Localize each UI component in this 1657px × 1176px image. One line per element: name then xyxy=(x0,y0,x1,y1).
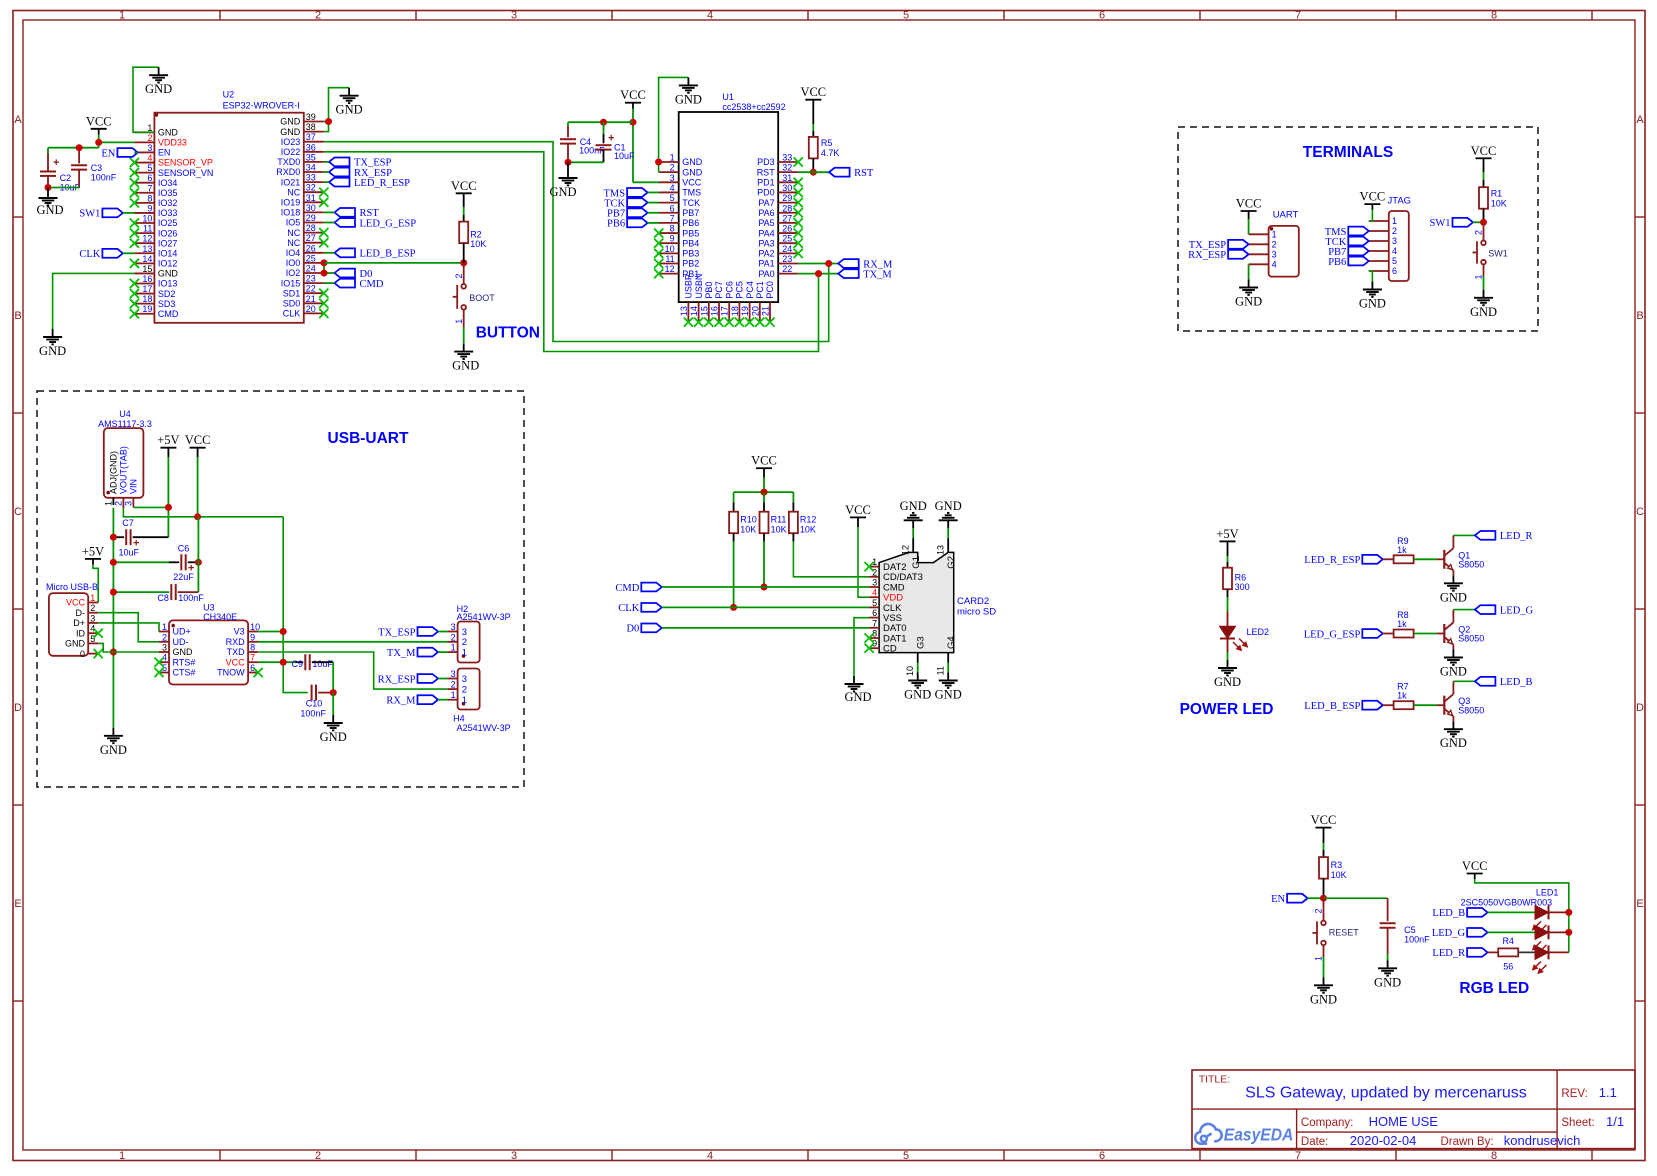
svg-text:5: 5 xyxy=(670,193,675,203)
svg-text:100nF: 100nF xyxy=(178,593,204,603)
section box TERMINALS xyxy=(1178,127,1538,331)
svg-text:2: 2 xyxy=(147,133,152,143)
svg-text:300: 300 xyxy=(1235,582,1250,592)
svg-text:GND: GND xyxy=(158,128,179,138)
wire +5V to USB pin1 xyxy=(93,565,98,603)
node R2/BOOT junction xyxy=(460,259,467,266)
svg-text:LED_B: LED_B xyxy=(1500,677,1533,688)
svg-text:2: 2 xyxy=(670,163,675,173)
wire VCC to U2 pin2 xyxy=(99,135,135,148)
net flag LED_G_ESP (U2) xyxy=(335,218,417,229)
net flag LED_G xyxy=(1475,605,1534,616)
svg-text:SW1: SW1 xyxy=(1430,218,1451,229)
svg-text:14: 14 xyxy=(689,306,699,316)
svg-text:HOME USE: HOME USE xyxy=(1369,1114,1439,1129)
svg-text:7: 7 xyxy=(1295,9,1301,21)
svg-text:JTAG: JTAG xyxy=(1388,196,1412,207)
wire JTAG pin6 to GND xyxy=(1369,271,1373,282)
svg-text:1/1: 1/1 xyxy=(1606,1114,1624,1129)
wire SW1 pin1 to GND xyxy=(1474,265,1484,290)
svg-text:2: 2 xyxy=(451,680,456,690)
svg-text:21: 21 xyxy=(306,294,316,304)
svg-text:2: 2 xyxy=(462,685,467,696)
svg-text:2: 2 xyxy=(315,9,321,21)
title block xyxy=(1192,1070,1635,1149)
wire rail to R12 xyxy=(792,492,794,512)
wire TX_M to H2 pin1 xyxy=(438,651,448,653)
wire VCC to C2/C3 xyxy=(48,148,99,153)
power VCC (U2) xyxy=(86,114,112,134)
wire VCC rail to V3/VCC xyxy=(283,517,308,693)
svg-text:USBP: USBP xyxy=(684,274,694,299)
svg-text:1: 1 xyxy=(451,690,456,700)
wire Q2 emitter to GND xyxy=(1452,645,1454,650)
wire VCC stem xyxy=(197,457,199,517)
net flag LED_R_ESP (U2) xyxy=(329,178,410,189)
wire D0 to card pin7 xyxy=(662,627,869,629)
resistor R10 xyxy=(729,512,757,535)
svg-text:IO0: IO0 xyxy=(286,258,301,268)
node PA0 junction xyxy=(815,270,822,277)
svg-text:PC0: PC0 xyxy=(765,281,775,299)
ground GND (C2/C3) xyxy=(36,188,63,218)
svg-text:IO13: IO13 xyxy=(158,279,178,289)
wire CMD to card pin3 xyxy=(662,586,869,588)
wire R11 to CMD net xyxy=(763,533,765,587)
svg-text:6: 6 xyxy=(872,608,877,618)
wire node to SW1 pin2 xyxy=(1474,222,1484,240)
ground GND (U4) xyxy=(100,728,127,757)
wire LED_G to LED xyxy=(1488,931,1535,933)
capacitor C5 xyxy=(1380,923,1431,954)
node +5V junction xyxy=(165,504,172,511)
node LED1 anode B xyxy=(1565,909,1572,916)
node C2 bottom junction xyxy=(45,184,52,191)
svg-text:C2: C2 xyxy=(60,173,72,183)
svg-text:PB6: PB6 xyxy=(607,219,625,230)
node C4 bottom junction xyxy=(565,159,572,166)
svg-text:30: 30 xyxy=(306,203,316,213)
wire U3 RXD to H2 pin2 xyxy=(258,641,448,643)
wire USB GND to U3 GND xyxy=(98,643,159,652)
svg-text:28: 28 xyxy=(306,223,316,233)
svg-text:LED_G_ESP: LED_G_ESP xyxy=(360,218,417,229)
power VCC (U4) xyxy=(185,433,211,457)
svg-text:UD+: UD+ xyxy=(173,627,191,637)
svg-text:3: 3 xyxy=(1392,236,1397,246)
transistor Q3 S8050 xyxy=(1444,694,1484,716)
svg-text:22: 22 xyxy=(782,264,792,274)
svg-text:11: 11 xyxy=(665,254,674,264)
wire junction to BOOT pin2 xyxy=(454,263,464,284)
net flag RX_ESP (UART) xyxy=(1188,250,1248,261)
node R10/CLK junction xyxy=(730,604,737,611)
IC U1 cc2538+cc2592 xyxy=(654,92,803,327)
svg-text:G4: G4 xyxy=(946,636,957,649)
svg-text:LED_G_ESP: LED_G_ESP xyxy=(1304,629,1361,640)
svg-text:9: 9 xyxy=(250,632,255,642)
net flag CLK xyxy=(79,249,123,260)
svg-text:VCC: VCC xyxy=(1360,190,1386,204)
svg-text:GND: GND xyxy=(1440,665,1467,679)
svg-text:3: 3 xyxy=(670,173,675,183)
wire Q1 collector to LED_R xyxy=(1453,535,1475,548)
resistor R2 xyxy=(459,222,486,249)
svg-text:R3: R3 xyxy=(1331,860,1343,870)
svg-text:A: A xyxy=(14,114,22,126)
svg-text:GND: GND xyxy=(900,499,927,513)
node C1 top junction xyxy=(600,119,607,126)
svg-text:15: 15 xyxy=(699,306,709,316)
label BUTTON xyxy=(476,324,540,341)
svg-text:IO32: IO32 xyxy=(158,198,178,208)
net flag TCK (JTAG) xyxy=(1325,237,1369,248)
ground GND (LED2) xyxy=(1214,660,1241,689)
svg-text:UART: UART xyxy=(1273,210,1299,221)
ground GND (G1) xyxy=(900,499,927,529)
node C10 right junction xyxy=(330,689,337,696)
svg-text:RXD0: RXD0 xyxy=(276,167,300,177)
svg-text:12: 12 xyxy=(665,264,675,274)
wire U2 pin23 to CMD xyxy=(324,282,335,284)
power VCC (R10-R12 rail) xyxy=(751,454,777,478)
svg-text:VOUT(TAB): VOUT(TAB) xyxy=(119,446,129,494)
IC U2 ESP32-WROVER-I xyxy=(130,90,329,323)
svg-text:PB0: PB0 xyxy=(704,282,714,299)
svg-text:SLS Gateway, updated by mercen: SLS Gateway, updated by mercenaruss xyxy=(1245,1085,1527,1102)
svg-text:LED_R: LED_R xyxy=(1432,948,1465,959)
resistor R8 xyxy=(1394,610,1414,638)
svg-text:56: 56 xyxy=(1503,961,1513,971)
svg-text:GND: GND xyxy=(173,647,194,657)
svg-text:kondrusevich: kondrusevich xyxy=(1504,1133,1581,1148)
wire R9 to Q1 base xyxy=(1414,558,1444,560)
wire R7 to Q3 base xyxy=(1414,704,1444,706)
svg-text:R6: R6 xyxy=(1235,573,1247,583)
switch RESET xyxy=(1313,921,1360,946)
svg-text:Micro USB-B: Micro USB-B xyxy=(46,582,98,592)
svg-text:7: 7 xyxy=(250,653,255,663)
svg-text:12: 12 xyxy=(901,545,911,555)
svg-text:LED_G: LED_G xyxy=(1432,928,1466,939)
switch BOOT xyxy=(453,284,496,310)
svg-text:Date:: Date: xyxy=(1301,1136,1329,1148)
connector Micro USB-B xyxy=(46,582,103,659)
wire EN node to C5 xyxy=(1324,898,1388,921)
svg-text:ADJ(GND): ADJ(GND) xyxy=(109,451,119,494)
node C7 left junction xyxy=(110,534,117,541)
node U1 pin1 junction xyxy=(655,159,662,166)
svg-text:6: 6 xyxy=(147,173,152,183)
svg-text:1: 1 xyxy=(147,123,152,133)
svg-text:1: 1 xyxy=(1314,956,1324,961)
svg-text:CLK: CLK xyxy=(618,603,639,614)
wire LED cathode to rail xyxy=(1549,951,1569,953)
wire node to RESET pin2 xyxy=(1314,898,1324,920)
svg-text:VCC: VCC xyxy=(751,454,777,468)
svg-text:GND: GND xyxy=(1359,297,1386,311)
svg-text:4: 4 xyxy=(1392,246,1397,256)
svg-text:PA1: PA1 xyxy=(758,259,774,269)
svg-text:33: 33 xyxy=(306,173,316,183)
svg-text:10: 10 xyxy=(665,244,675,254)
svg-text:VCC: VCC xyxy=(1236,197,1262,211)
svg-text:25: 25 xyxy=(306,253,316,263)
power VCC (JTAG) xyxy=(1360,190,1386,210)
svg-text:PD0: PD0 xyxy=(757,188,775,198)
net flag LED_G xyxy=(1432,928,1488,939)
svg-text:1: 1 xyxy=(1272,230,1277,240)
switch SW1 xyxy=(1473,241,1508,265)
wire SW1 to U2 pin9 xyxy=(123,212,134,214)
wire rail to R11 xyxy=(763,492,765,512)
svg-text:10K: 10K xyxy=(470,239,486,249)
svg-text:31: 31 xyxy=(782,173,792,183)
node LED1 anode G xyxy=(1565,929,1572,936)
wire U1 pin23 to RX_M xyxy=(798,263,838,265)
wire R6 to LED2 xyxy=(1227,589,1229,626)
node PA1 junction xyxy=(825,260,832,267)
capacitor C6 xyxy=(113,544,198,582)
svg-text:29: 29 xyxy=(306,213,316,223)
svg-text:38: 38 xyxy=(306,122,316,132)
svg-text:CH340E: CH340E xyxy=(203,612,237,622)
svg-text:IO26: IO26 xyxy=(158,228,178,238)
wire U2 pin30 to RST xyxy=(324,211,335,213)
wire U1 pins1/2 to GND xyxy=(659,77,689,172)
svg-text:RTS#: RTS# xyxy=(173,657,196,667)
power +5V (U4) xyxy=(157,433,179,457)
svg-text:PC5: PC5 xyxy=(735,281,745,299)
wire U1 pin32 to RST flag xyxy=(798,171,829,173)
svg-text:TNOW: TNOW xyxy=(217,668,245,678)
wire VCC rail down xyxy=(178,517,199,592)
wire LED_R to R4 xyxy=(1488,951,1499,953)
wire C9 to C10/GND xyxy=(332,662,334,692)
svg-text:5: 5 xyxy=(903,1150,909,1162)
svg-text:8: 8 xyxy=(250,643,255,653)
svg-text:1: 1 xyxy=(119,1150,125,1162)
svg-text:6: 6 xyxy=(670,203,675,213)
svg-text:USBN: USBN xyxy=(694,274,704,299)
svg-text:25: 25 xyxy=(782,234,792,244)
net flag RX_M xyxy=(838,259,893,270)
svg-text:+5V: +5V xyxy=(1216,527,1238,541)
ground GND (C4/C1) xyxy=(549,162,577,199)
svg-text:CD: CD xyxy=(883,644,897,655)
svg-text:CARD2: CARD2 xyxy=(957,596,989,607)
svg-text:C7: C7 xyxy=(122,518,134,528)
svg-text:32: 32 xyxy=(306,183,316,193)
ground GND (U2 pin1) xyxy=(145,67,172,96)
label USB-UART xyxy=(328,430,409,447)
svg-text:Sheet:: Sheet: xyxy=(1561,1117,1594,1129)
svg-text:S8050: S8050 xyxy=(1458,705,1484,715)
wire G2 to GND xyxy=(947,528,949,538)
svg-text:20: 20 xyxy=(750,306,760,316)
svg-text:TX_ESP: TX_ESP xyxy=(378,627,416,638)
net flag CMD (U2) xyxy=(335,279,384,290)
svg-text:8: 8 xyxy=(1491,9,1497,21)
svg-text:19: 19 xyxy=(142,304,152,314)
svg-text:S8050: S8050 xyxy=(1458,634,1484,644)
connector CARD2 micro SD xyxy=(865,538,997,676)
wire U4 pin3 VIN to +5V xyxy=(133,506,168,508)
svg-text:GND: GND xyxy=(280,117,301,127)
net flag D0 (card) xyxy=(626,624,661,635)
svg-text:PC7: PC7 xyxy=(714,281,724,299)
net flag PB7 (U1) xyxy=(607,208,648,219)
wire R4 to LED xyxy=(1518,951,1535,953)
wire SW1 flag to node xyxy=(1473,221,1484,223)
ground GND (C5) xyxy=(1374,960,1401,989)
wire Q3 emitter to GND xyxy=(1452,716,1454,721)
wire R8 to Q2 base xyxy=(1414,633,1444,635)
svg-text:B: B xyxy=(1636,310,1643,322)
svg-text:1: 1 xyxy=(1474,274,1484,279)
node C3 top junction xyxy=(76,144,83,151)
wire U2 pin33 to LED_R_ESP xyxy=(324,181,329,183)
ground GND (C9/C10) xyxy=(320,715,347,744)
ground GND (U2 pin15) xyxy=(39,329,66,358)
svg-text:1: 1 xyxy=(670,153,675,163)
svg-text:G3: G3 xyxy=(916,636,927,649)
svg-text:2: 2 xyxy=(1314,908,1324,913)
capacitor C8 xyxy=(113,584,204,603)
net flag TX_M xyxy=(838,269,892,280)
wire C2/C3 bottom to GND xyxy=(48,187,79,189)
resistor R11 xyxy=(760,512,787,535)
svg-text:LED_B_ESP: LED_B_ESP xyxy=(360,249,416,260)
net flag EN (RGB) xyxy=(1271,894,1308,905)
svg-text:2: 2 xyxy=(872,567,877,577)
wire VCC to R1 xyxy=(1483,172,1485,187)
svg-text:G2: G2 xyxy=(946,556,957,569)
power +5V (R6) xyxy=(1216,527,1238,556)
wire LED cathode to rail xyxy=(1549,911,1569,913)
svg-text:PA0: PA0 xyxy=(758,269,774,279)
label TERMINALS xyxy=(1303,144,1393,161)
svg-text:13: 13 xyxy=(142,244,152,254)
svg-text:VCC: VCC xyxy=(1471,144,1497,158)
connector JTAG xyxy=(1369,196,1411,282)
node EN junction xyxy=(1320,895,1327,902)
svg-text:IO35: IO35 xyxy=(158,188,178,198)
svg-text:CMD: CMD xyxy=(615,583,639,594)
svg-text:4: 4 xyxy=(670,183,675,193)
wire RX_M to H4 pin1 xyxy=(438,699,448,701)
wire rail to R10 xyxy=(733,492,735,512)
svg-text:PA7: PA7 xyxy=(758,198,774,208)
svg-text:AMS1117-3.3: AMS1117-3.3 xyxy=(98,419,152,429)
wire R3 to EN node xyxy=(1323,879,1325,899)
net flag CMD (card) xyxy=(615,583,661,594)
svg-text:1.1: 1.1 xyxy=(1599,1085,1617,1100)
svg-text:PC1: PC1 xyxy=(755,281,765,299)
svg-text:13: 13 xyxy=(936,545,946,555)
capacitor C2 xyxy=(40,153,81,193)
node GND net junction xyxy=(110,649,117,656)
svg-text:3: 3 xyxy=(462,674,467,685)
net flag RST (U1) xyxy=(829,168,874,179)
svg-text:IO5: IO5 xyxy=(286,218,301,228)
svg-text:TERMINALS: TERMINALS xyxy=(1303,144,1393,161)
svg-text:C10: C10 xyxy=(306,699,323,709)
wire UART pin4 to GND xyxy=(1248,264,1250,279)
svg-text:39: 39 xyxy=(306,112,316,122)
svg-text:TX_M: TX_M xyxy=(387,648,416,659)
wire G4 to GND xyxy=(947,663,949,673)
svg-text:cc2538+cc2592: cc2538+cc2592 xyxy=(722,102,785,112)
ground GND (JTAG) xyxy=(1359,282,1386,311)
wire USB D- to U3 xyxy=(98,613,159,642)
svg-text:19: 19 xyxy=(740,306,750,316)
svg-text:TITLE:: TITLE: xyxy=(1199,1073,1231,1085)
svg-text:9: 9 xyxy=(670,234,675,244)
svg-text:REV:: REV: xyxy=(1561,1088,1587,1100)
ground GND (U1 top) xyxy=(675,77,702,106)
wire CLK to card pin5 xyxy=(662,606,869,608)
svg-text:CLK: CLK xyxy=(283,309,301,319)
svg-text:GND: GND xyxy=(935,688,962,702)
svg-text:VCC: VCC xyxy=(86,114,112,128)
svg-text:27: 27 xyxy=(782,213,792,223)
resistor R3 xyxy=(1319,857,1347,880)
svg-text:D: D xyxy=(1636,702,1644,714)
section box USB-UART xyxy=(37,391,524,787)
svg-text:PC6: PC6 xyxy=(724,281,734,299)
svg-text:7: 7 xyxy=(147,183,152,193)
label RGB LED xyxy=(1459,980,1529,997)
svg-text:11: 11 xyxy=(936,666,946,675)
svg-text:5: 5 xyxy=(903,9,909,21)
svg-text:PB4: PB4 xyxy=(682,238,699,248)
svg-text:LED1: LED1 xyxy=(1536,888,1559,898)
IC U3 CH340E xyxy=(154,603,262,685)
net flag EN xyxy=(101,148,137,159)
svg-text:14: 14 xyxy=(142,254,152,264)
svg-text:GND: GND xyxy=(100,743,127,757)
svg-text:0: 0 xyxy=(80,649,85,659)
svg-text:1: 1 xyxy=(1392,216,1397,226)
wire LED_G_ESP to R8 xyxy=(1383,633,1394,635)
wire Q3 collector to LED_B xyxy=(1453,681,1475,694)
wire LED_B to LED xyxy=(1488,911,1535,913)
svg-text:GND: GND xyxy=(452,359,479,373)
svg-text:GND: GND xyxy=(158,269,179,279)
svg-text:SW1: SW1 xyxy=(1488,249,1508,259)
wire U2 pins 39/38 to GND xyxy=(324,88,349,132)
svg-text:3: 3 xyxy=(451,669,456,679)
ground GND (VSS) xyxy=(844,676,871,704)
net flag LED_B xyxy=(1475,677,1533,688)
resistor R9 xyxy=(1394,536,1414,564)
svg-text:R12: R12 xyxy=(800,515,817,525)
net flag TCK (U1) xyxy=(604,198,648,209)
svg-text:U3: U3 xyxy=(203,603,215,613)
node IO0 junction xyxy=(321,259,328,266)
svg-text:GND: GND xyxy=(1235,295,1262,309)
power VCC (UART) xyxy=(1236,197,1262,220)
net flag D0 (U2) xyxy=(335,269,373,280)
svg-text:10uF: 10uF xyxy=(614,151,635,161)
wire TX_ESP to H2 pin3 xyxy=(438,631,448,633)
svg-text:37: 37 xyxy=(306,132,316,142)
wire +5V rail xyxy=(167,457,169,537)
svg-text:micro SD: micro SD xyxy=(957,607,996,618)
svg-text:ID: ID xyxy=(76,628,86,638)
capacitor C10 xyxy=(300,685,333,719)
